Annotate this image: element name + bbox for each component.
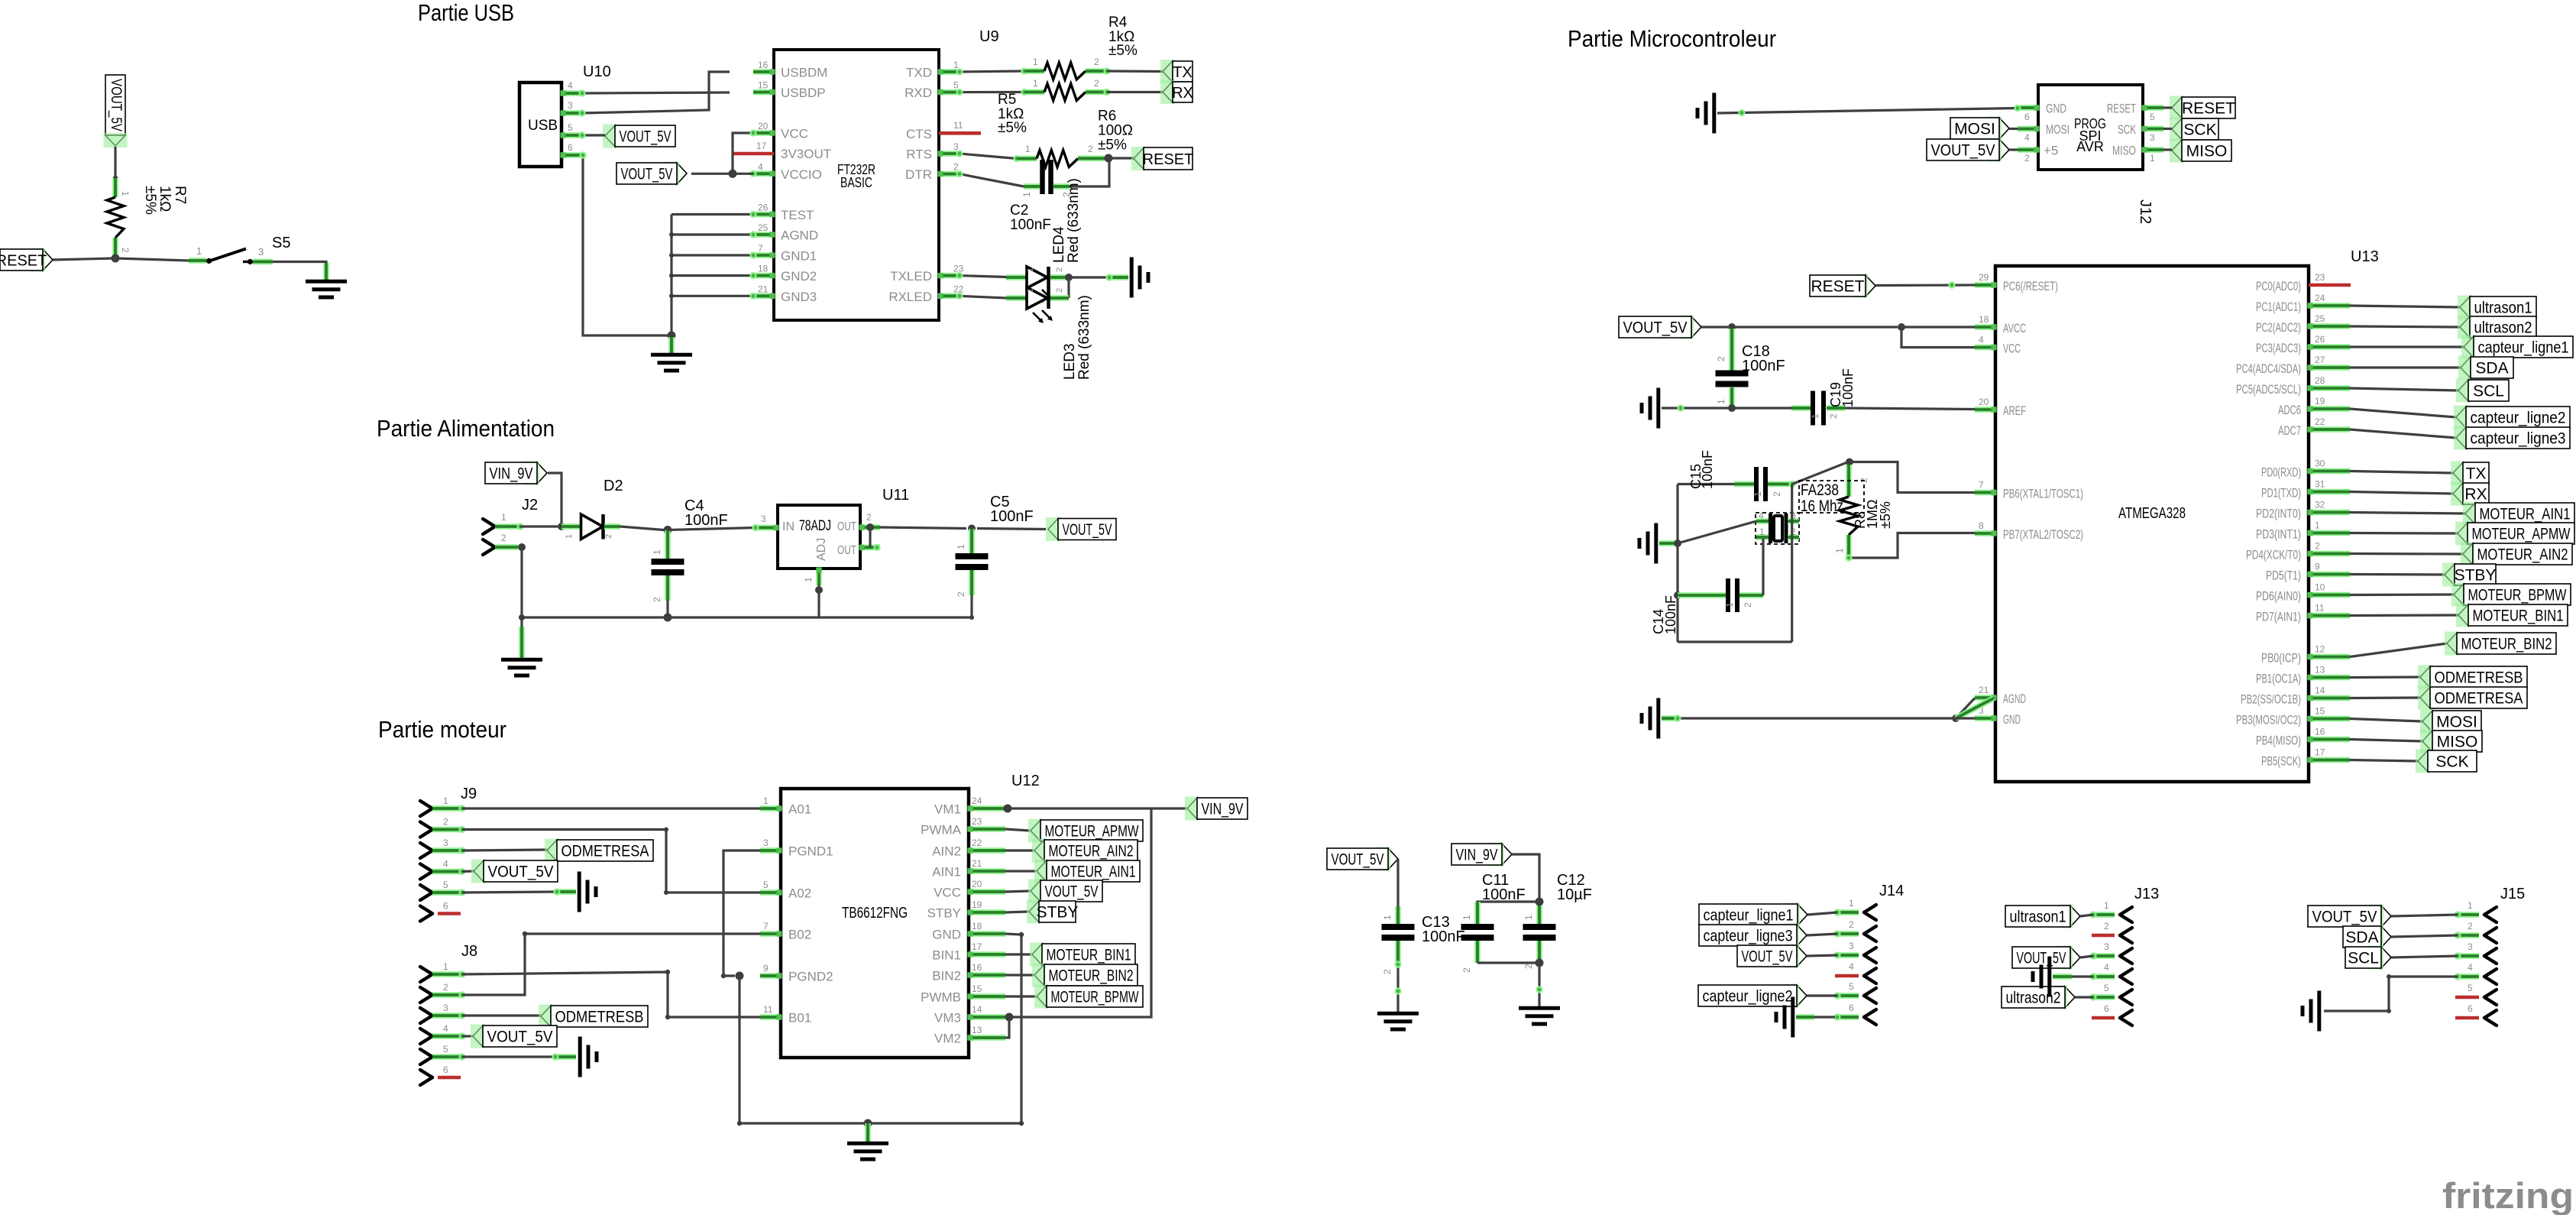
U12 pin 21 (AIN1) xyxy=(932,858,1005,880)
svg-text:MOTEUR_AIN2: MOTEUR_AIN2 xyxy=(2477,546,2568,564)
svg-text:3: 3 xyxy=(761,514,766,524)
svg-text:4: 4 xyxy=(1759,510,1764,521)
wire J8.1-B01 xyxy=(462,970,760,1019)
wire xyxy=(1807,955,1837,956)
wire xyxy=(462,870,474,873)
svg-text:100nF: 100nF xyxy=(1742,358,1785,374)
svg-text:6: 6 xyxy=(443,901,448,912)
svg-text:7: 7 xyxy=(758,243,763,254)
wire gnd bus xyxy=(670,215,672,336)
svg-text:MOSI: MOSI xyxy=(2436,714,2477,731)
svg-text:3V3OUT: 3V3OUT xyxy=(781,147,831,161)
svg-text:2: 2 xyxy=(1743,602,1753,607)
svg-text:fritzing: fritzing xyxy=(2442,1175,2574,1215)
wire xyxy=(1069,274,1128,280)
svg-text:MOTEUR_AIN2: MOTEUR_AIN2 xyxy=(1049,843,1134,860)
wire xyxy=(1107,70,1163,73)
svg-text:1: 1 xyxy=(2104,900,2109,911)
net label VIN_9V xyxy=(485,462,547,485)
net label SCL xyxy=(2456,379,2509,403)
connector J15 pin 2 xyxy=(2454,921,2497,943)
crystal label dashed outline xyxy=(1799,481,1864,513)
D2 label xyxy=(604,478,623,494)
svg-text:6: 6 xyxy=(443,1064,448,1075)
wire xyxy=(2350,719,2422,722)
C15 value label xyxy=(1688,450,1715,489)
connector J13 pin 1 xyxy=(2089,900,2132,922)
svg-text:J14: J14 xyxy=(1879,883,1904,899)
ground xyxy=(2033,957,2050,997)
U13 pin 25 (PC2(ADC2)) xyxy=(2256,313,2350,335)
svg-text:1: 1 xyxy=(1523,915,1534,920)
U13 pin 30 (PD0(RXD)) xyxy=(2261,458,2350,480)
U9 pin 4 (VCCIO) xyxy=(753,161,822,182)
U13 pin 17 (PB5(SCK)) xyxy=(2261,747,2350,769)
svg-text:17: 17 xyxy=(756,141,767,151)
wire xyxy=(2350,471,2453,474)
net label MOTEUR_BIN2 xyxy=(2445,632,2556,656)
ground xyxy=(1776,997,1793,1038)
ground xyxy=(651,337,692,371)
wire xyxy=(2350,573,2445,576)
svg-text:PB7(XTAL2/TOSC2): PB7(XTAL2/TOSC2) xyxy=(2003,527,2083,542)
U13 pin 10 (PD6(AIN0)) xyxy=(2256,582,2350,604)
svg-text:Partie moteur: Partie moteur xyxy=(378,716,506,743)
net label ODMETRESB xyxy=(539,1005,648,1029)
net label MOTEUR_AIN1 xyxy=(2463,502,2574,526)
svg-text:2: 2 xyxy=(1094,57,1099,67)
wire bottom xyxy=(1678,640,1792,643)
svg-text:R4: R4 xyxy=(1108,15,1128,31)
section title Partie USB xyxy=(418,0,514,26)
svg-text:1: 1 xyxy=(1382,915,1393,920)
resistor R7 xyxy=(107,178,131,258)
connector J14 pin 1 xyxy=(1833,898,1876,920)
net label RESET xyxy=(1810,274,1875,298)
svg-text:RXLED: RXLED xyxy=(888,290,932,304)
wire xyxy=(2350,306,2460,307)
net label VOUT_5V xyxy=(1927,138,2009,162)
svg-text:3: 3 xyxy=(763,838,769,848)
svg-text:3: 3 xyxy=(1849,941,1854,951)
J12 pin 6 (GND) xyxy=(2018,102,2066,123)
svg-text:U11: U11 xyxy=(882,487,909,504)
svg-text:4: 4 xyxy=(1849,961,1854,972)
junction VCCIO xyxy=(729,170,737,178)
wire xyxy=(1477,961,1539,964)
svg-text:6: 6 xyxy=(568,142,573,153)
net label TX xyxy=(1160,60,1193,83)
wire AGND diag xyxy=(1956,698,1994,719)
net label MOTEUR_BIN1 xyxy=(2456,604,2568,627)
wire xyxy=(1070,158,1109,186)
U13 pin 3 (GND) xyxy=(1975,705,2021,727)
capacitor C11 xyxy=(1461,902,1494,973)
wire USB.6 down xyxy=(579,151,668,335)
connector J8 pin 2 xyxy=(420,982,466,1003)
wire xyxy=(1108,157,1134,159)
svg-text:TEST: TEST xyxy=(781,208,814,222)
svg-text:2: 2 xyxy=(1055,267,1064,272)
net label MISO xyxy=(2420,730,2482,753)
wire xyxy=(1659,542,1675,544)
junction xyxy=(1674,591,1681,599)
svg-text:1: 1 xyxy=(196,245,202,257)
U11 pin 1 (ADJ) xyxy=(803,567,822,585)
svg-text:TX: TX xyxy=(1173,64,1193,81)
net label ultrason1 xyxy=(2005,905,2080,928)
svg-text:2: 2 xyxy=(2468,921,2473,932)
svg-text:PB1(OC1A): PB1(OC1A) xyxy=(2256,672,2301,686)
connector J14 label xyxy=(1879,883,1904,899)
svg-text:TB6612FNG: TB6612FNG xyxy=(842,905,908,922)
svg-text:MOTEUR_AIN1: MOTEUR_AIN1 xyxy=(1051,863,1136,881)
wire USB.3 to USBDM xyxy=(578,72,730,117)
ground xyxy=(1642,698,1659,739)
svg-text:PC0(ADC0): PC0(ADC0) xyxy=(2256,279,2301,293)
svg-text:21: 21 xyxy=(758,283,769,294)
junction xyxy=(664,614,672,622)
svg-text:Partie Microcontroleur: Partie Microcontroleur xyxy=(1568,25,1776,52)
svg-text:28: 28 xyxy=(2315,375,2325,386)
C5 value label xyxy=(990,494,1034,525)
connector J14 pin 3 xyxy=(1833,941,1876,963)
wire xyxy=(1005,829,1030,831)
svg-text:1: 1 xyxy=(1834,548,1845,553)
svg-text:LED3: LED3 xyxy=(1062,343,1078,380)
svg-text:3: 3 xyxy=(443,838,448,848)
U9 pin 15 (USBDP) xyxy=(753,80,826,101)
wire xyxy=(2080,915,2093,916)
svg-text:±5%: ±5% xyxy=(1098,138,1127,154)
U10 pin 3 xyxy=(560,100,582,116)
svg-text:17: 17 xyxy=(2315,747,2325,758)
C11 value label xyxy=(1482,872,1526,903)
svg-text:FA238: FA238 xyxy=(1801,481,1839,499)
svg-text:29: 29 xyxy=(1979,272,1989,283)
svg-text:MOTEUR_BIN2: MOTEUR_BIN2 xyxy=(2461,636,2552,653)
wire xyxy=(462,1053,576,1060)
svg-text:8: 8 xyxy=(1979,520,1984,531)
wire xyxy=(1875,281,1975,288)
U9 pin 23 (TXLED) xyxy=(890,264,963,284)
svg-text:78ADJ: 78ADJ xyxy=(799,517,831,534)
svg-text:3: 3 xyxy=(443,1003,448,1013)
U12 pin 11 (B01) xyxy=(760,1004,811,1025)
wire xyxy=(1477,902,1539,906)
U12 pin 17 (BIN1) xyxy=(932,941,1005,963)
connector J8 pin 6 red no-connect xyxy=(420,1064,461,1085)
svg-text:2: 2 xyxy=(1088,144,1093,154)
wire xyxy=(880,527,966,529)
resistor R5 xyxy=(1021,78,1110,101)
svg-text:GND3: GND3 xyxy=(781,290,817,304)
svg-text:PGND1: PGND1 xyxy=(788,844,833,859)
wire VM2 xyxy=(1005,1017,1009,1038)
svg-text:GND: GND xyxy=(2003,712,2021,727)
wire xyxy=(2350,760,2418,762)
wire USB.4 to USBDP xyxy=(578,89,730,96)
svg-text:Red (633nm): Red (633nm) xyxy=(1066,178,1082,263)
svg-text:4: 4 xyxy=(2104,962,2109,973)
svg-text:OUT: OUT xyxy=(837,520,856,533)
svg-text:PB3(MOSI/OC2): PB3(MOSI/OC2) xyxy=(2236,713,2301,727)
wire xyxy=(2350,593,2454,596)
svg-text:±5%: ±5% xyxy=(998,120,1027,136)
C13 value label xyxy=(1422,914,1465,945)
capacitor C14 xyxy=(1678,578,1763,612)
svg-text:ADC6: ADC6 xyxy=(2278,403,2301,417)
wire xyxy=(2009,128,2018,130)
svg-text:VOUT_5V: VOUT_5V xyxy=(1623,319,1688,337)
svg-text:PC1(ADC1): PC1(ADC1) xyxy=(2256,300,2301,314)
U11 pin OUT lower xyxy=(859,544,880,551)
net label capteur_ligne3 xyxy=(1699,924,1807,948)
junction xyxy=(112,254,120,263)
wire xyxy=(1107,91,1163,93)
net label ultrason2 xyxy=(2002,986,2075,1009)
wire AREF xyxy=(1845,408,1975,410)
U13 pin 18 (AVCC) xyxy=(1975,314,2026,335)
svg-text:ATMEGA328: ATMEGA328 xyxy=(2118,505,2186,522)
svg-text:D2: D2 xyxy=(604,478,623,494)
net label VOUT_5V xyxy=(2308,905,2391,928)
svg-text:1: 1 xyxy=(2468,900,2473,911)
svg-text:capteur_ligne3: capteur_ligne3 xyxy=(2471,430,2566,448)
svg-text:PC6(/RESET): PC6(/RESET) xyxy=(2003,279,2058,293)
IC U13 ATMEGA328 xyxy=(1995,248,2379,782)
wire xyxy=(817,585,820,617)
svg-text:MISO: MISO xyxy=(2437,734,2478,751)
wire xyxy=(1005,870,1036,872)
IC U9 FT232R xyxy=(774,28,999,320)
wire xyxy=(2350,366,2461,368)
svg-text:1: 1 xyxy=(1021,192,1032,197)
svg-text:100nF: 100nF xyxy=(1700,450,1715,489)
svg-text:16 Mhz: 16 Mhz xyxy=(1801,497,1843,515)
FA238 value label xyxy=(1801,481,1843,515)
svg-text:16: 16 xyxy=(2315,727,2325,737)
J12 pin 4 (MOSI) xyxy=(2018,122,2070,143)
net label MOSI xyxy=(1950,117,2009,141)
svg-text:AGND: AGND xyxy=(781,228,818,243)
wire xyxy=(2350,696,2420,699)
svg-text:23: 23 xyxy=(972,816,982,827)
U13 pin 31 (PD1(TXD)) xyxy=(2261,479,2350,501)
svg-text:20: 20 xyxy=(972,879,982,889)
net label VOUT_5V xyxy=(1327,847,1398,871)
wire xyxy=(1396,859,1399,906)
U9 pin 16 (USBDM) xyxy=(753,60,827,80)
svg-text:GND: GND xyxy=(2046,102,2066,116)
net label STBY xyxy=(1027,900,1078,924)
wire TEST xyxy=(672,211,757,218)
wire xyxy=(2391,935,2458,937)
svg-text:VM3: VM3 xyxy=(934,1011,961,1025)
wire xyxy=(520,525,558,527)
svg-text:B02: B02 xyxy=(788,928,811,942)
wire xyxy=(1005,953,1031,955)
svg-text:2: 2 xyxy=(652,597,662,602)
U13 pin 15 (PB3(MOSI/OC2)) xyxy=(2236,706,2350,727)
crystal Y1 FA238 xyxy=(1756,510,1799,543)
wire xyxy=(53,258,115,260)
junction xyxy=(1536,898,1544,906)
svg-text:VOUT_5V: VOUT_5V xyxy=(1045,883,1099,901)
wire xyxy=(869,527,871,547)
svg-text:13: 13 xyxy=(972,1025,982,1035)
wire xyxy=(2350,388,2458,390)
svg-text:2: 2 xyxy=(443,817,448,828)
svg-text:BIN1: BIN1 xyxy=(932,948,961,963)
U13 pin 21 (AGND) xyxy=(1975,685,2026,706)
connector J13 pin 5 xyxy=(2089,983,2132,1005)
svg-text:B01: B01 xyxy=(788,1011,811,1025)
wire xyxy=(462,888,576,895)
junction xyxy=(968,525,976,533)
svg-text:18: 18 xyxy=(1979,314,1989,325)
svg-text:2: 2 xyxy=(604,534,613,539)
svg-text:3: 3 xyxy=(2150,132,2155,143)
U9 pin 7 (GND1) xyxy=(753,243,817,264)
wire VCC jog xyxy=(1901,327,1975,348)
connector J13 pin 2 red no-connect xyxy=(2092,921,2132,943)
svg-text:VOUT_5V: VOUT_5V xyxy=(488,863,554,881)
svg-text:3: 3 xyxy=(2104,941,2109,952)
junction xyxy=(1674,539,1681,547)
junction PGND2 xyxy=(736,972,744,980)
svg-text:5: 5 xyxy=(443,1044,448,1055)
U13 pin 2 (PD4(XCK/T0)) xyxy=(2246,541,2350,562)
connector J15 pin 3 xyxy=(2454,941,2497,964)
U13 pin 14 (PB2(SS/OC1B)) xyxy=(2241,685,2350,707)
net label VOUT_5V xyxy=(616,162,687,186)
svg-text:1: 1 xyxy=(1716,399,1727,404)
svg-text:ODMETRESA: ODMETRESA xyxy=(561,843,649,860)
crystal Y1 FA238 dashed outline xyxy=(1756,513,1799,544)
svg-text:MOTEUR_BIN1: MOTEUR_BIN1 xyxy=(1047,947,1131,964)
svg-text:R7: R7 xyxy=(172,186,188,204)
wire GND3 xyxy=(672,293,757,300)
wire xyxy=(956,89,1024,96)
svg-text:capteur_ligne2: capteur_ligne2 xyxy=(1703,988,1793,1006)
svg-text:1: 1 xyxy=(1026,267,1035,272)
wire xyxy=(1678,483,1753,485)
svg-text:24: 24 xyxy=(2315,293,2325,303)
net label ultrason1 xyxy=(2458,296,2536,319)
U12 pin 9 (PGND2) xyxy=(760,963,833,984)
svg-text:MOTEUR_APMW: MOTEUR_APMW xyxy=(1045,823,1139,841)
svg-text:J9: J9 xyxy=(461,786,477,802)
wire xyxy=(1005,912,1028,912)
LED3 label xyxy=(1062,295,1092,380)
svg-text:21: 21 xyxy=(972,858,982,869)
wire VCC jog xyxy=(733,129,757,170)
U12 pin 13 (VM2) xyxy=(934,1025,1005,1046)
U12 pin 18 (GND) xyxy=(932,921,1005,942)
connector J15 pin 1 xyxy=(2454,900,2497,922)
wire GND xyxy=(1005,932,1024,1123)
U13 pin 13 (PB1(OC1A)) xyxy=(2256,665,2350,686)
LED4 label xyxy=(1051,178,1082,263)
svg-text:11: 11 xyxy=(953,120,963,131)
wire to PB7 xyxy=(1845,533,1975,562)
net label SCK xyxy=(2170,118,2218,141)
U9 pin 5 (RXD) xyxy=(905,80,960,101)
net label MOTEUR_APMW xyxy=(2455,522,2574,546)
wire xyxy=(2350,409,2456,417)
capacitor C18 xyxy=(1716,329,1749,408)
wire xyxy=(969,595,974,620)
IC U10 USB connector xyxy=(519,63,611,167)
svg-text:C2: C2 xyxy=(1010,202,1028,219)
net label MOTEUR_AIN2 xyxy=(1032,839,1138,863)
U9 pin 18 (GND2) xyxy=(753,264,817,284)
capacitor C13 xyxy=(1382,906,1415,974)
switch S5 xyxy=(189,235,290,264)
R6 value label xyxy=(1098,109,1133,154)
svg-text:13: 13 xyxy=(2315,665,2325,676)
net label VOUT_5V xyxy=(1619,316,1701,339)
net label MOSI xyxy=(2420,710,2481,734)
U12 pin 22 (AIN2) xyxy=(932,838,1005,859)
svg-text:TXLED: TXLED xyxy=(890,269,932,283)
junction xyxy=(518,543,526,551)
svg-text:2: 2 xyxy=(2104,921,2109,932)
svg-text:SCK: SCK xyxy=(2183,122,2216,139)
U13 pin 23 (PC0(ADC0)) red no-connect xyxy=(2256,272,2351,293)
svg-text:VIN_9V: VIN_9V xyxy=(490,465,533,483)
svg-text:20: 20 xyxy=(758,121,769,131)
wire xyxy=(1067,277,1070,298)
wire xyxy=(578,131,605,138)
svg-text:GND1: GND1 xyxy=(781,249,817,264)
ground xyxy=(2303,991,2319,1032)
svg-text:PD7(AIN1): PD7(AIN1) xyxy=(2256,610,2301,624)
net label capteur_ligne2 xyxy=(1698,984,1807,1008)
wire xyxy=(1732,326,1898,328)
connector J14 pin 2 xyxy=(1833,919,1876,941)
svg-text:PB4(MISO): PB4(MISO) xyxy=(2256,734,2301,748)
wire xyxy=(2350,492,2453,494)
svg-text:2: 2 xyxy=(866,512,872,523)
svg-text:capteur_ligne1: capteur_ligne1 xyxy=(1704,907,1794,925)
svg-text:100nF: 100nF xyxy=(1840,368,1856,407)
wire xyxy=(115,258,189,261)
svg-text:±5%: ±5% xyxy=(142,186,158,215)
U13 pin 27 (PC4(ADC4/SDA)) xyxy=(2236,355,2350,376)
svg-text:5: 5 xyxy=(2468,983,2473,993)
svg-text:PD1(TXD): PD1(TXD) xyxy=(2261,486,2301,501)
net label VOUT_5V xyxy=(1737,944,1807,968)
svg-text:15: 15 xyxy=(2315,706,2325,717)
net label MOTEUR_BIN1 xyxy=(1030,943,1135,967)
svg-text:SCL: SCL xyxy=(2473,383,2504,400)
wire xyxy=(2350,643,2447,657)
svg-text:5: 5 xyxy=(763,880,769,890)
svg-text:SDA: SDA xyxy=(2345,929,2378,947)
wire J9.2-A02 xyxy=(462,828,760,896)
svg-text:TX: TX xyxy=(2466,465,2487,483)
resistor R8 xyxy=(1834,465,1869,558)
U13 pin 8 (PB7(XTAL2/TOSC2)) xyxy=(1975,520,2083,542)
net label RESET xyxy=(2170,96,2235,120)
IC U12 TB6612FNG xyxy=(781,773,1040,1058)
svg-text:VCC: VCC xyxy=(781,127,808,141)
svg-text:10: 10 xyxy=(2315,582,2325,593)
wire AGND xyxy=(672,231,757,238)
wire J8.2-B02 xyxy=(462,932,760,995)
